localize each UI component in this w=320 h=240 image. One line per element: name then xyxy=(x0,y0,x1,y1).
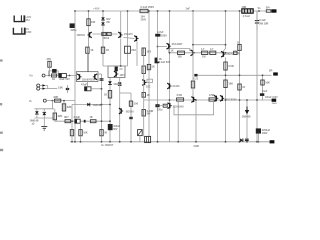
svg-text:50V: 50V xyxy=(113,128,118,131)
wire Q7 base feed xyxy=(157,46,159,48)
wire servo left vertical xyxy=(71,105,73,130)
svg-text:+48V: +48V xyxy=(93,6,100,10)
transistor Q1 2SA970 xyxy=(88,32,92,38)
svg-text:4K7: 4K7 xyxy=(64,116,69,119)
svg-text:2K2: 2K2 xyxy=(131,49,136,52)
wire clamp to ground xyxy=(43,118,45,127)
wire left vertical bus xyxy=(74,11,76,142)
svg-text:100V: 100V xyxy=(262,132,268,135)
zener D2 62V xyxy=(101,22,105,25)
svg-text:2nF: 2nF xyxy=(186,8,191,11)
resistor R6b emitter link xyxy=(107,32,111,35)
svg-text:1K: 1K xyxy=(106,49,109,52)
wire Q9 collector jog xyxy=(223,49,225,52)
svg-text:10K: 10K xyxy=(265,82,270,85)
wire collector link line xyxy=(193,44,226,46)
svg-text:2.2uF: 2.2uF xyxy=(74,116,81,119)
resistor R9 pair xyxy=(125,46,131,53)
svg-text:1K5: 1K5 xyxy=(147,50,152,53)
svg-text:1815: 1815 xyxy=(120,75,126,77)
resistor R10 xyxy=(108,91,111,99)
fuse F1 xyxy=(266,10,271,12)
resistor R26 xyxy=(209,98,216,101)
resistor stack R24b xyxy=(142,110,145,117)
resistor R18b xyxy=(210,51,216,54)
wire lower diode vertical xyxy=(246,100,248,142)
wire R34 drop xyxy=(192,50,194,81)
power connector J2 xyxy=(13,28,25,34)
svg-text:10uF: 10uF xyxy=(262,90,268,93)
svg-text:1K: 1K xyxy=(52,78,55,81)
resistor stack R23 xyxy=(142,66,145,74)
wire clamp row bottom xyxy=(35,117,55,119)
svg-text:2SC5200: 2SC5200 xyxy=(226,98,237,102)
wire Q14 loop xyxy=(147,79,153,82)
wire bias diode chain xyxy=(109,78,111,142)
svg-text:2SA970: 2SA970 xyxy=(124,33,133,36)
zener D1 62V xyxy=(101,17,105,20)
svg-text:220u: 220u xyxy=(157,108,163,111)
svg-text:4.7uF: 4.7uF xyxy=(157,31,164,34)
node dots bottom rail xyxy=(71,141,73,143)
resistor R12 xyxy=(53,113,56,120)
svg-text:5W: 5W xyxy=(147,113,151,116)
wire input+ xyxy=(45,75,76,77)
svg-text:BD139: BD139 xyxy=(126,110,134,113)
wire mirror load vertical xyxy=(127,11,129,66)
wire input- xyxy=(46,100,75,102)
svg-text:1.8K: 1.8K xyxy=(58,86,63,89)
node dots mid row xyxy=(225,74,227,76)
resistor R30 xyxy=(224,80,227,88)
svg-text:100V: 100V xyxy=(161,35,167,38)
svg-text:10K: 10K xyxy=(228,83,233,86)
svg-text:100: 100 xyxy=(134,103,139,106)
wire output bus vertical xyxy=(225,11,227,49)
svg-text:SP+: SP+ xyxy=(266,7,271,10)
svg-text:10K: 10K xyxy=(83,132,88,135)
node dots mid output row xyxy=(169,99,171,101)
edge mark 2 xyxy=(0,103,2,105)
transistor Q12 2SA1943 xyxy=(168,103,172,109)
svg-text:4.7uH: 4.7uH xyxy=(243,14,250,18)
wire Q2 rail feed xyxy=(120,11,122,32)
transistor Q11a output xyxy=(214,95,218,101)
svg-text:GND: GND xyxy=(194,145,200,148)
svg-text:GND: GND xyxy=(26,31,32,34)
input pair box U1 xyxy=(76,72,98,82)
svg-text:Vi-: Vi- xyxy=(29,99,32,103)
wire R33 lead xyxy=(101,136,103,142)
wire right rail vertical xyxy=(239,11,241,45)
wire lower mid drop xyxy=(177,100,179,142)
transistor Q13 BD139 xyxy=(119,108,123,114)
wire resistor stack vertical xyxy=(143,53,145,93)
transistor Q3 2SC2240 xyxy=(134,36,138,42)
resistor R25 xyxy=(177,98,184,101)
resistor stack R24 xyxy=(142,93,145,98)
capacitor C7 electrolytic xyxy=(75,119,80,123)
VBE multiplier box U2 xyxy=(108,66,125,78)
transistor Q10 xyxy=(191,97,195,103)
wire bias chain vertical xyxy=(157,11,159,142)
diode D9 arrow xyxy=(245,107,249,115)
svg-text:1K: 1K xyxy=(171,50,174,53)
capacitor C6 aux xyxy=(66,88,69,89)
terminal block TB1 xyxy=(145,136,151,142)
transistor Q8 predriver xyxy=(191,50,195,56)
svg-text:1K5: 1K5 xyxy=(147,68,152,71)
terminal 0V square xyxy=(270,140,275,143)
svg-text:GND: GND xyxy=(272,103,277,105)
wire zener chain vertical xyxy=(102,11,104,66)
wire mid output row xyxy=(144,99,272,101)
wire servo upper row xyxy=(72,104,110,106)
resistor R36 on VAS rail xyxy=(147,64,150,69)
wire +48V top rail xyxy=(75,10,272,12)
wire R7 drop xyxy=(86,53,88,71)
svg-text:0.5R: 0.5R xyxy=(209,94,214,97)
svg-text:1N4148: 1N4148 xyxy=(93,104,102,107)
resistor R1 input bias xyxy=(48,61,51,67)
capacitor C5 on rail xyxy=(140,9,148,12)
wire bias drop xyxy=(119,78,121,142)
wire clamp row top xyxy=(35,108,55,110)
wire servo drop 1 xyxy=(80,123,82,129)
capacitor C4 xyxy=(100,79,104,80)
svg-text:0.5R: 0.5R xyxy=(228,65,233,68)
transistor Q9 output NPN xyxy=(221,51,225,57)
resistor R11 inside bias box xyxy=(115,67,118,72)
wire C15 lead xyxy=(257,134,259,142)
wire collector loop xyxy=(174,100,214,115)
svg-text:0.5R: 0.5R xyxy=(177,94,182,97)
svg-text:2SC: 2SC xyxy=(146,85,151,88)
wire VAS input vertical xyxy=(101,74,103,130)
svg-text:47K: 47K xyxy=(47,58,52,61)
wire Q3 emitter drop xyxy=(136,42,138,67)
wire bias box top link xyxy=(103,65,128,67)
tick at row start xyxy=(194,74,197,77)
resistor R4 shunt xyxy=(62,104,65,111)
svg-text:35A: 35A xyxy=(26,19,31,22)
transistor Q4b input pair xyxy=(93,74,97,80)
wire driver output row xyxy=(170,52,240,54)
resistor R19b xyxy=(238,84,241,90)
diode D4 1N4148 xyxy=(35,111,39,114)
resistor R27 xyxy=(163,104,167,107)
resistor R19 xyxy=(238,45,241,51)
svg-text:1K: 1K xyxy=(90,49,93,52)
resistor R2 series xyxy=(52,74,57,77)
svg-text:22K: 22K xyxy=(67,105,72,109)
svg-text:Vo: Vo xyxy=(258,6,262,10)
resistor R15 xyxy=(90,120,96,123)
capacitor C16 xyxy=(245,139,249,140)
wire R32 lead xyxy=(80,136,82,142)
svg-text:0.1uF 250V: 0.1uF 250V xyxy=(141,5,155,9)
svg-text:22K: 22K xyxy=(58,114,63,118)
terminal IN- xyxy=(43,99,46,102)
trimmer VR1 xyxy=(138,130,143,136)
resistor R33 xyxy=(100,130,103,136)
wire Q1-Q2 base link xyxy=(93,33,118,35)
svg-text:10K: 10K xyxy=(91,21,96,24)
capacitor C20 electrolytic xyxy=(260,93,264,96)
wire R31 lead xyxy=(71,136,73,142)
capacitor C3 feedback electrolytic xyxy=(85,87,91,91)
svg-text:A1943: A1943 xyxy=(172,85,180,88)
wire Q2 collector drop xyxy=(120,39,122,67)
resistor R16 xyxy=(129,101,132,106)
wire input stage vertical xyxy=(88,11,90,72)
wire bottom mid vertical xyxy=(195,100,197,142)
transistor Q2 2SA970 xyxy=(118,32,122,38)
diode D3a 1N4148 xyxy=(108,81,112,84)
svg-text:250V: 250V xyxy=(141,18,147,21)
edge mark 4 xyxy=(0,149,3,151)
edge mark 3 xyxy=(0,132,3,134)
svg-text:1K: 1K xyxy=(90,116,93,119)
capacitor C15 electrolytic xyxy=(256,128,261,133)
resistor R20 xyxy=(224,62,227,70)
resistor R35 base stopper xyxy=(234,51,237,54)
resistor R18a xyxy=(202,51,208,54)
resistor R3 feedback xyxy=(55,99,61,102)
svg-text:SP-: SP- xyxy=(269,70,273,73)
svg-text:0.1uF 63V: 0.1uF 63V xyxy=(159,61,171,64)
wire R1 stub xyxy=(49,67,51,75)
svg-text:100x2: 100x2 xyxy=(103,37,110,40)
wire zobel vertical xyxy=(256,11,258,142)
wire mid rail vertical xyxy=(169,11,171,142)
svg-text:0.22: 0.22 xyxy=(194,77,199,80)
wire bias shunt vertical xyxy=(130,93,132,142)
wire feedback resistor vertical xyxy=(262,75,264,100)
svg-text:1K: 1K xyxy=(104,93,107,96)
terminal SPK+ square xyxy=(272,9,277,12)
svg-text:10uF 50V: 10uF 50V xyxy=(59,78,70,81)
wire Q7 emitter link xyxy=(170,49,190,51)
capacitor C17 electrolytic on VAS feed xyxy=(155,34,160,37)
wire R4 top xyxy=(63,101,65,104)
edge mark 1 xyxy=(0,59,3,61)
capacitor C8 xyxy=(129,117,133,118)
wire speaker mid row xyxy=(198,74,272,76)
diode D5 1N4148 xyxy=(43,112,47,115)
svg-text:220u: 220u xyxy=(71,28,77,32)
svg-text:100: 100 xyxy=(178,56,183,59)
wire bottom ground rail xyxy=(70,141,272,143)
svg-text:2SA1837: 2SA1837 xyxy=(172,42,183,46)
resistor R17 xyxy=(178,51,185,54)
svg-text:4x 1N4007: 4x 1N4007 xyxy=(101,144,114,147)
transistor Q14 xyxy=(142,80,146,86)
resistor R32 xyxy=(79,130,82,136)
capacitor C2 input electrolytic xyxy=(59,74,67,78)
svg-text:1K: 1K xyxy=(152,65,155,68)
transistor Q15 xyxy=(167,83,171,89)
transistor Q11b output xyxy=(220,95,224,101)
wire Q2-Q3 link xyxy=(124,38,135,39)
resistor R5 xyxy=(87,19,90,26)
connector pins aux xyxy=(37,84,40,87)
wire Q7 collector down xyxy=(168,49,170,53)
svg-text:22K: 22K xyxy=(54,95,59,99)
component L-cap on bias line xyxy=(155,58,160,64)
node dots driver row xyxy=(169,52,171,54)
resistor stack R22 xyxy=(142,48,145,56)
power connector J1 xyxy=(14,15,24,21)
svg-text:47uF: 47uF xyxy=(81,82,87,86)
capacitor C2a bypass loop xyxy=(49,71,52,76)
capacitor C1 input supply xyxy=(70,23,75,28)
inductor L1 xyxy=(242,9,253,13)
wire box right to VAS node xyxy=(98,73,102,75)
transistor Q5 bias xyxy=(114,71,118,77)
resistor R8 xyxy=(101,47,104,53)
svg-text:1K: 1K xyxy=(147,94,150,97)
capacitor C19 electrolytic xyxy=(155,104,159,107)
svg-text:2W 10R: 2W 10R xyxy=(259,22,268,25)
junction marks servo xyxy=(84,120,86,123)
wire R12 bottom xyxy=(55,120,62,121)
terminal IN+ xyxy=(42,74,45,77)
ground symbol input xyxy=(41,127,47,131)
svg-text:Vi+: Vi+ xyxy=(29,74,33,78)
diode D3 1N4148 xyxy=(118,82,122,85)
wire Q8 collector xyxy=(192,11,194,50)
svg-text:1N5408: 1N5408 xyxy=(242,116,251,119)
resistor R31 xyxy=(70,130,73,136)
capacitor C18 electrolytic xyxy=(108,124,113,130)
svg-text:2SA970GR: 2SA970GR xyxy=(82,78,95,81)
transistor Q4a input pair xyxy=(77,74,81,80)
terminal OUT2 square xyxy=(272,99,277,102)
wire Q13 base link xyxy=(120,92,131,94)
svg-text:10R: 10R xyxy=(242,5,247,9)
wire VAS rail vertical xyxy=(148,11,150,137)
node dots top rail xyxy=(74,10,76,12)
resistor R7 xyxy=(86,47,89,53)
terminal SPK- square xyxy=(273,72,278,75)
capacitor C10 zobel xyxy=(255,21,259,23)
diode D11 xyxy=(240,138,243,142)
transistor Q7 driver 2SA1837 xyxy=(167,43,171,49)
svg-text:1K: 1K xyxy=(104,132,107,135)
svg-text:2N5401: 2N5401 xyxy=(77,34,86,37)
wire cap stub xyxy=(86,82,88,87)
wire servo lower row xyxy=(62,120,110,122)
wire Q12 link xyxy=(160,105,168,107)
resistor R34 xyxy=(191,81,194,88)
diode D6 1N4148 xyxy=(87,103,90,107)
resistor R28 feedback xyxy=(261,80,264,85)
resistor R6a emitter link xyxy=(102,32,106,35)
resistor R13 xyxy=(65,120,71,123)
